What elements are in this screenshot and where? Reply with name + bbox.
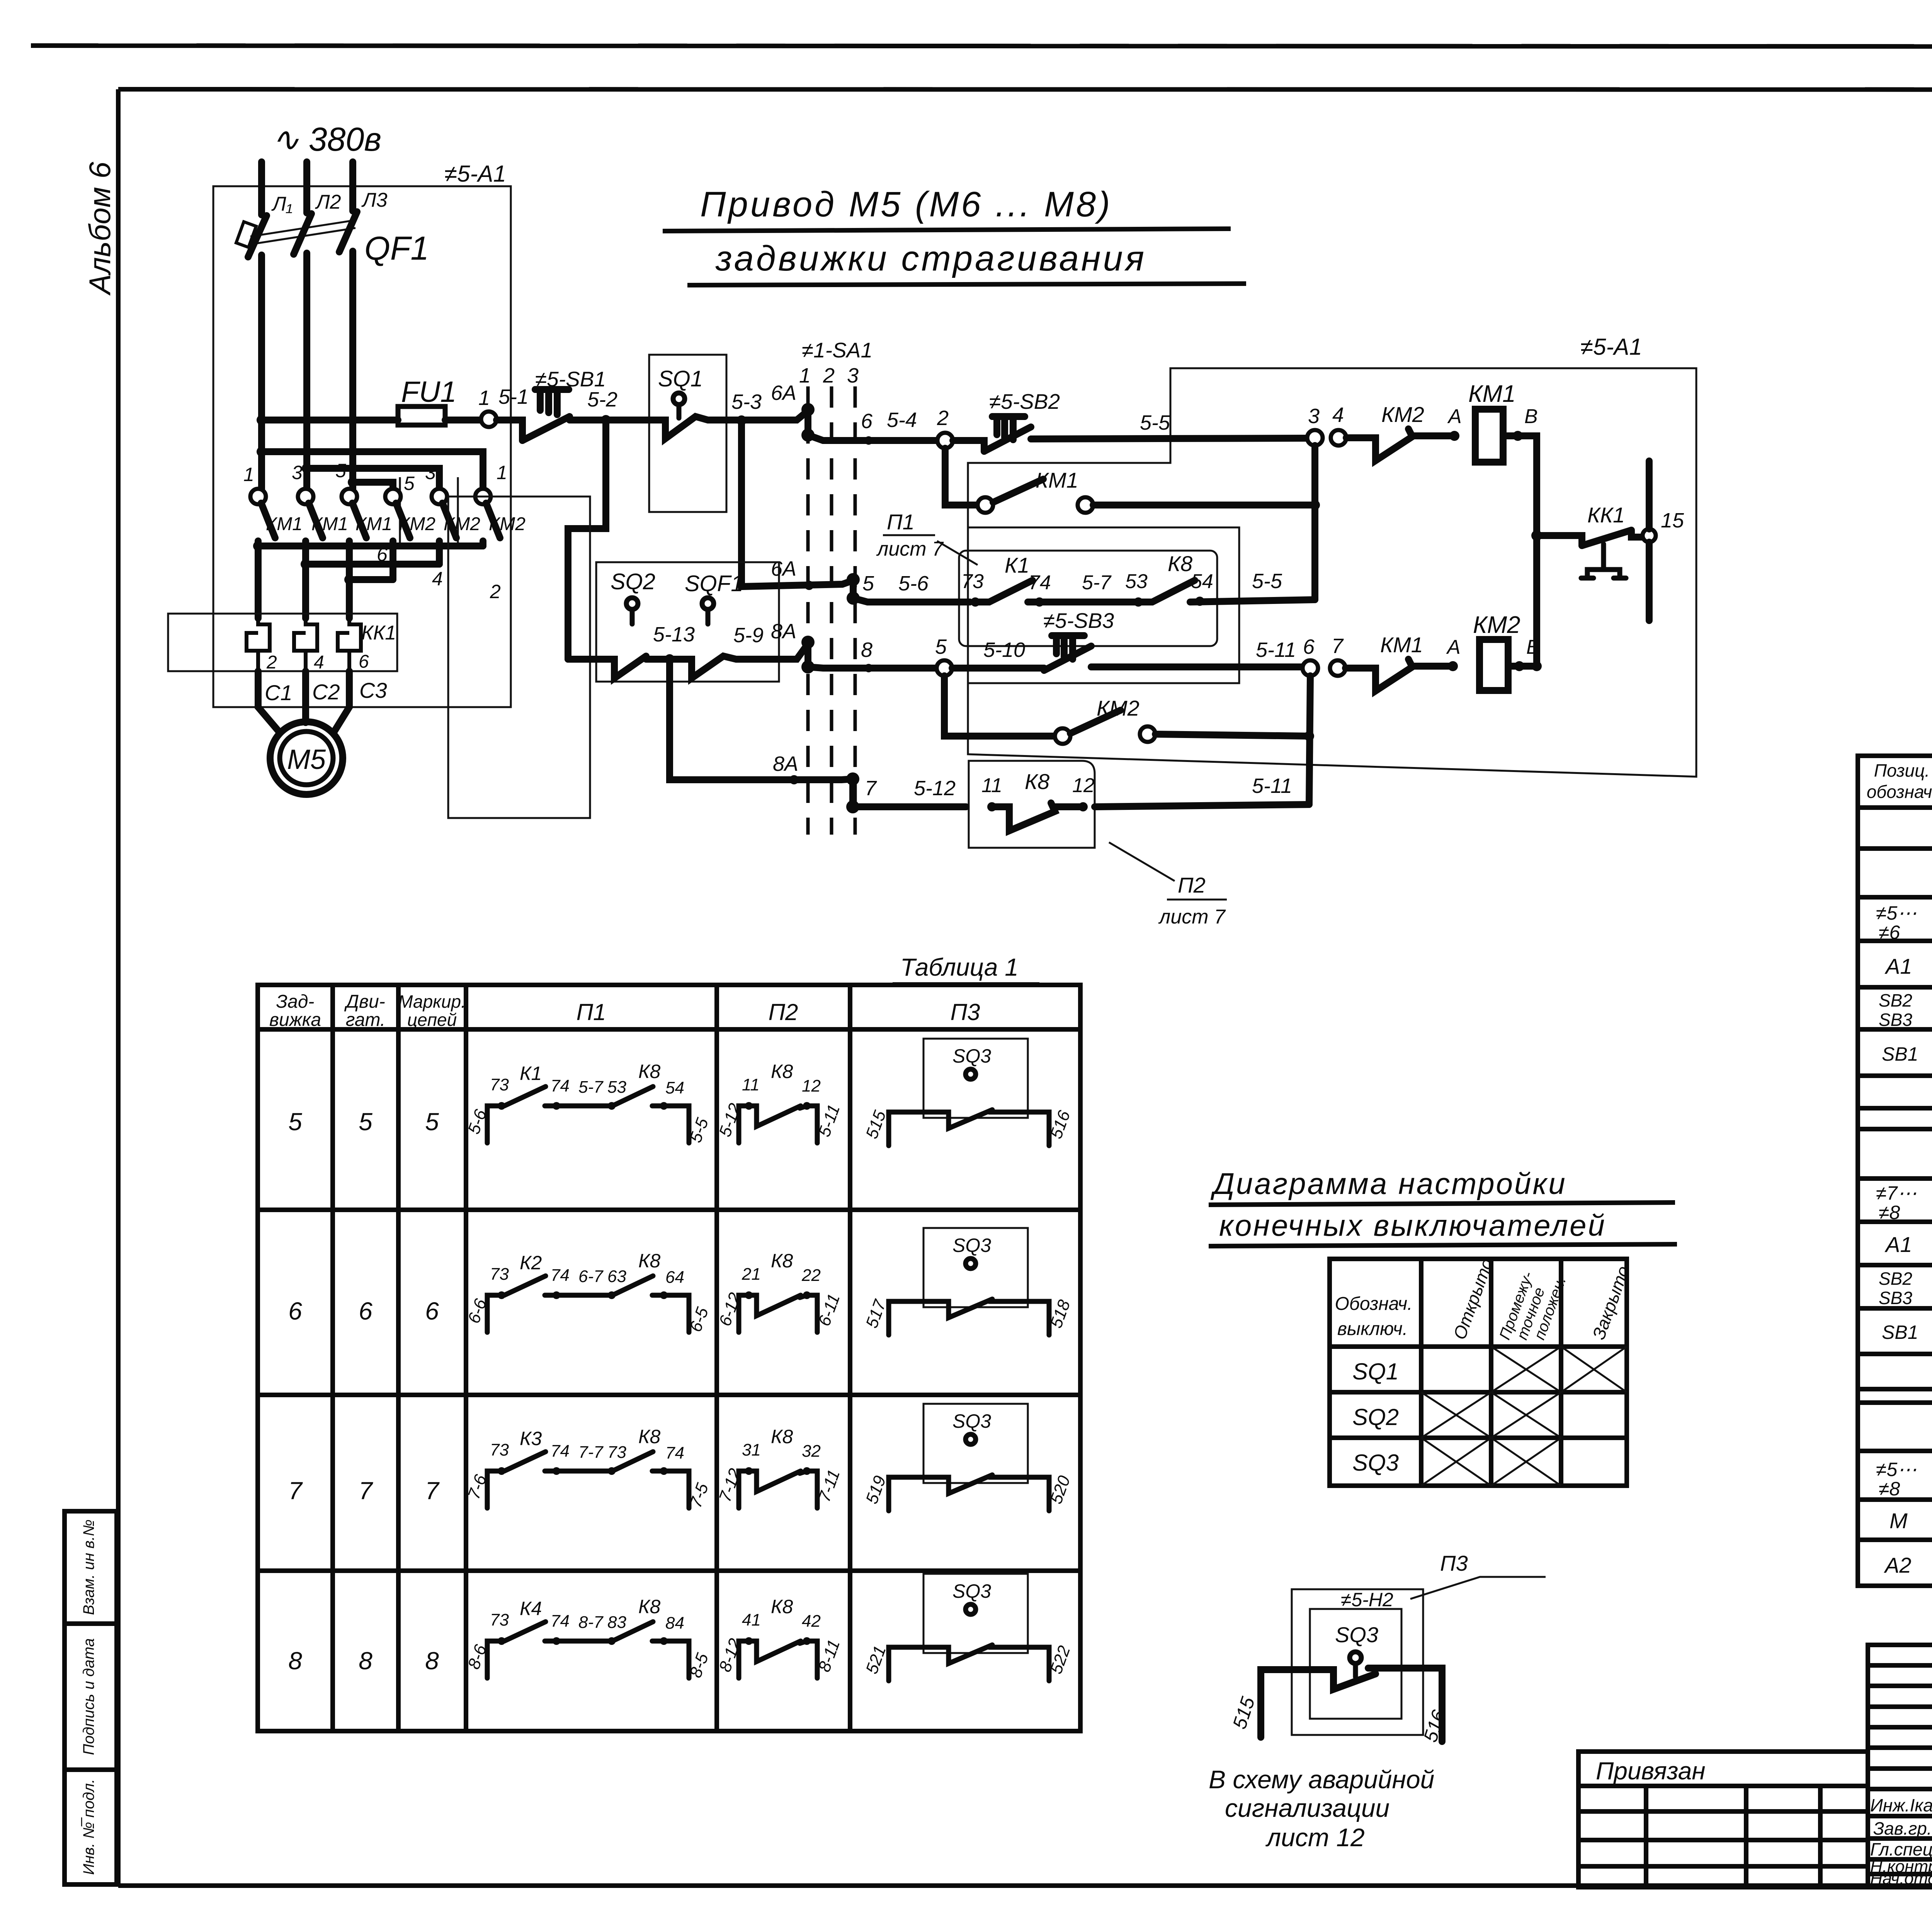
svg-text:6-7: 6-7	[578, 1267, 604, 1286]
svg-text:Подпись и дата: Подпись и дата	[80, 1638, 97, 1755]
KM1 blade a	[261, 503, 275, 538]
svg-text:5: 5	[935, 635, 947, 658]
reversing link row c	[349, 576, 393, 583]
phase line L2	[303, 162, 310, 213]
relay contact K1 blade	[975, 580, 1032, 602]
svg-text:8: 8	[359, 1647, 372, 1675]
svg-text:5-11: 5-11	[1256, 638, 1296, 662]
KM1 blade c	[352, 503, 366, 538]
row8 P3 box	[923, 1574, 1028, 1653]
row1 wire from connector	[808, 435, 937, 440]
svg-text:3: 3	[292, 462, 303, 483]
seal KM2 blade	[1070, 710, 1121, 733]
signature block box	[1868, 1645, 1932, 1887]
svg-text:П3: П3	[951, 999, 980, 1025]
node dot on 8A wire	[789, 775, 799, 784]
row6 P1 contact chain	[487, 1276, 689, 1332]
KK1 heater a	[247, 618, 270, 671]
seal KM1 terminal right	[1078, 497, 1093, 513]
P1 row wire from connector	[853, 598, 970, 602]
svg-text:С1: С1	[265, 680, 293, 705]
svg-text:Взам. ин в.№: Взам. ин в.№	[80, 1519, 97, 1615]
motor lead C2	[302, 671, 309, 723]
svg-text:SQ1: SQ1	[1352, 1359, 1399, 1384]
svg-text:Л₁: Л₁	[271, 193, 293, 215]
contact terminal 1b	[475, 489, 491, 504]
node 15 vertical line	[1646, 461, 1653, 621]
svg-text:74: 74	[551, 1442, 570, 1461]
svg-text:7: 7	[1332, 634, 1344, 658]
DIAGRAM TABLE	[1209, 1167, 1677, 1486]
svg-text:П1: П1	[887, 510, 915, 534]
SQ2 cross otkryto	[1421, 1392, 1491, 1438]
svg-text:SВ1: SВ1	[1882, 1043, 1918, 1065]
svg-text:6: 6	[425, 1297, 439, 1325]
row7 P3 actuator	[966, 1434, 976, 1444]
row8 P1 contact chain	[487, 1622, 689, 1678]
svg-text:5: 5	[425, 1108, 439, 1136]
table1 row lines	[258, 1029, 1080, 1571]
SA1 dashed line 2	[830, 386, 833, 835]
svg-text:54: 54	[1191, 570, 1213, 593]
LEFT MARGIN	[65, 162, 117, 1884]
row6 P2 dots	[745, 1291, 753, 1299]
row5 P3 contact	[889, 1110, 1049, 1146]
svg-text:SВ1: SВ1	[1882, 1321, 1918, 1343]
svg-text:2: 2	[266, 652, 277, 673]
row6 P3 actuator	[966, 1259, 976, 1269]
node 15 terminal circle	[1643, 529, 1656, 542]
phase line L1	[258, 162, 265, 215]
svg-text:≠6: ≠6	[1879, 922, 1900, 943]
svg-text:6: 6	[359, 1297, 372, 1325]
row6 P3 box	[923, 1228, 1028, 1307]
SQ2 actuator stem	[630, 609, 635, 624]
connector 6A dot upper	[801, 403, 815, 416]
connector 6A dot lower	[801, 429, 815, 442]
motor lead C3	[333, 671, 349, 733]
svg-text:4: 4	[432, 568, 443, 590]
row7 P2 contact	[739, 1471, 817, 1508]
svg-text:Таблица 1: Таблица 1	[900, 953, 1019, 981]
KM1 blade b	[309, 503, 323, 538]
svg-text:4: 4	[314, 652, 324, 673]
diagram table row lines	[1330, 1347, 1627, 1438]
row8 P3 actuator	[966, 1604, 976, 1614]
svg-text:1: 1	[478, 386, 490, 410]
table1 caption underline	[893, 982, 1039, 987]
svg-text:SQ2: SQ2	[611, 569, 655, 594]
button SB1 head	[535, 389, 569, 415]
contactor coil KM1	[1475, 409, 1503, 462]
svg-text:П2: П2	[769, 999, 798, 1025]
node dot link2	[302, 463, 312, 473]
svg-text:SQ3: SQ3	[952, 1410, 991, 1432]
output wire phase c	[346, 541, 353, 618]
svg-text:1: 1	[497, 462, 507, 483]
node dot on SA1 line 1	[804, 581, 814, 590]
svg-text:КМ2: КМ2	[399, 514, 435, 534]
svg-text:SВ3: SВ3	[1879, 1010, 1912, 1030]
thermal contact KK1 wire	[1537, 536, 1582, 546]
svg-text:К3: К3	[520, 1428, 542, 1449]
svg-text:К8: К8	[771, 1596, 793, 1617]
svg-text:SQ3: SQ3	[952, 1580, 991, 1602]
device box around SQ2 SQF1	[596, 562, 779, 682]
row5 P2 contact	[739, 1106, 817, 1143]
svg-text:5: 5	[335, 460, 346, 481]
svg-text:31: 31	[742, 1440, 761, 1459]
button SB3 blade	[1044, 646, 1091, 670]
svg-text:К4: К4	[520, 1598, 542, 1619]
svg-text:3: 3	[847, 364, 859, 387]
svg-text:лист 7: лист 7	[876, 538, 944, 560]
svg-text:лист 12: лист 12	[1265, 1823, 1365, 1852]
P3 leader line	[1410, 1577, 1546, 1599]
svg-text:А: А	[1447, 405, 1462, 428]
svg-text:≠5-SB2: ≠5-SB2	[989, 389, 1060, 413]
junction dot seal row2	[1304, 731, 1314, 741]
svg-text:7: 7	[288, 1477, 303, 1505]
left stamp box	[65, 1511, 117, 1884]
signature named rows	[1868, 1816, 1932, 1874]
svg-text:КМ1: КМ1	[1468, 381, 1516, 407]
vertical drop from 5-2 node	[568, 420, 606, 659]
diagram title underline 2	[1209, 1244, 1677, 1246]
signature thin rows	[1868, 1665, 1932, 1789]
relay contact K8 blade	[1138, 580, 1195, 602]
svg-text:5-12: 5-12	[914, 777, 956, 800]
svg-text:15: 15	[1661, 509, 1684, 532]
svg-text:≠5-А1: ≠5-А1	[1580, 334, 1642, 360]
svg-text:≠8: ≠8	[1879, 1202, 1900, 1223]
contact terminal 1	[250, 489, 266, 504]
POWER CIRCUIT	[168, 121, 526, 794]
svg-text:SQ2: SQ2	[1352, 1404, 1399, 1430]
diagram table outer	[1330, 1259, 1627, 1486]
button SB2 blade	[984, 427, 1031, 451]
row5 P1 dots	[498, 1102, 505, 1110]
svg-text:73: 73	[490, 1265, 509, 1284]
P2 leader underline	[1167, 899, 1227, 901]
svg-text:П1: П1	[577, 999, 606, 1025]
svg-text:Маркир.: Маркир.	[398, 992, 466, 1012]
svg-text:5-1: 5-1	[498, 385, 529, 408]
connector pair 6A	[804, 410, 811, 435]
row1 wire SB2 to circle3	[1031, 438, 1307, 439]
svg-text:5: 5	[404, 473, 415, 494]
terminal circle 4	[1331, 430, 1346, 446]
svg-text:А2: А2	[1884, 1553, 1912, 1577]
PARTS TABLE	[1858, 756, 1932, 1586]
svg-text:74: 74	[551, 1266, 570, 1285]
P1 outer thin box	[968, 527, 1239, 683]
junction dot row2 tail	[1532, 661, 1542, 671]
SQ1 cross zakryto	[1561, 1347, 1627, 1392]
svg-text:≠5-А1: ≠5-А1	[444, 161, 506, 187]
svg-text:задвижки страгивания: задвижки страгивания	[715, 239, 1146, 278]
svg-text:4: 4	[1332, 403, 1344, 427]
node dot link row a	[253, 541, 263, 551]
seal KM2 terminal right	[1140, 726, 1155, 742]
control feed bus wire	[262, 417, 398, 423]
svg-text:53: 53	[1125, 570, 1148, 593]
svg-text:Обознач.: Обознач.	[1335, 1294, 1413, 1314]
svg-text:3: 3	[1308, 405, 1320, 428]
svg-text:84: 84	[665, 1614, 684, 1633]
svg-text:53: 53	[607, 1078, 626, 1097]
inner frame left line	[116, 89, 121, 1886]
svg-text:5-5: 5-5	[1252, 570, 1282, 593]
relay contact K8b left dot	[987, 802, 997, 811]
SQ1 contact	[649, 417, 726, 439]
phase 3 down wire	[349, 251, 356, 489]
phase 2 down wire	[303, 253, 310, 489]
svg-text:5-11: 5-11	[1252, 774, 1292, 798]
svg-text:8: 8	[425, 1647, 439, 1675]
block A1 power boundary box	[213, 186, 511, 707]
contact terminal 3	[298, 489, 313, 504]
KM2 output a down	[389, 541, 396, 580]
diagram table column lines	[1421, 1259, 1561, 1486]
phase line L3	[349, 162, 356, 211]
svg-text:7: 7	[425, 1477, 440, 1505]
svg-text:7: 7	[359, 1477, 373, 1505]
svg-text:КК1: КК1	[1587, 503, 1625, 527]
svg-text:32: 32	[802, 1442, 821, 1461]
seal KM1 terminal left	[978, 497, 993, 513]
svg-text:≠5-SB3: ≠5-SB3	[1043, 609, 1114, 633]
row5 P2 dots	[745, 1102, 753, 1110]
svg-text:А1: А1	[1884, 954, 1912, 978]
svg-text:74: 74	[665, 1444, 684, 1463]
connector 8A dot lower	[801, 660, 815, 673]
svg-text:цепей: цепей	[407, 1010, 457, 1030]
privyazan strip box	[1578, 1752, 1868, 1887]
svg-text:гат.: гат.	[346, 1010, 386, 1030]
P2 row wire from connector	[853, 803, 966, 810]
svg-text:С2: С2	[312, 680, 340, 704]
pin 12 dot	[1078, 802, 1088, 811]
svg-text:6: 6	[1303, 635, 1315, 658]
svg-text:5-13: 5-13	[653, 623, 695, 646]
svg-text:21: 21	[742, 1265, 761, 1284]
svg-text:QF1: QF1	[364, 230, 429, 267]
cross link 2	[307, 468, 439, 489]
phase 1 down wire	[258, 255, 265, 489]
svg-text:5: 5	[862, 572, 874, 595]
svg-text:6: 6	[359, 651, 369, 672]
diagram title underline 1	[1209, 1202, 1675, 1205]
svg-text:П3: П3	[1440, 1551, 1468, 1575]
SQ1 actuator circle	[673, 393, 685, 405]
row8 P2 contact	[739, 1641, 817, 1678]
node dot 5-3 branch	[736, 415, 747, 425]
relay contact K8 right wire	[1190, 600, 1315, 602]
outer top border line	[31, 46, 1932, 47]
svg-text:5: 5	[359, 1108, 372, 1136]
node dot 8A branch	[665, 654, 675, 664]
TABLE 1	[258, 953, 1080, 1731]
svg-text:≠5-Н2: ≠5-Н2	[1341, 1589, 1393, 1611]
svg-text:2: 2	[823, 364, 835, 387]
relay contact K8b step	[992, 803, 1083, 831]
svg-text:5-10: 5-10	[983, 638, 1025, 662]
branch wire to 8A lower	[670, 659, 853, 780]
connector P1 dot lower	[847, 592, 860, 605]
row8 P1 dots	[498, 1637, 505, 1645]
seal KM2 terminal left	[1055, 728, 1070, 744]
node dot phase1 bus	[257, 415, 267, 425]
svg-text:8А: 8А	[773, 752, 798, 776]
CONTROL LEFT	[262, 338, 872, 835]
relay contact K1 right wire	[1028, 599, 1136, 605]
svg-text:1: 1	[243, 464, 254, 485]
svg-text:74: 74	[1029, 571, 1051, 594]
svg-text:≠5⋯: ≠5⋯	[1876, 902, 1917, 924]
P1 marker box	[959, 551, 1217, 646]
KM2 blade c	[486, 503, 500, 538]
KK1 heater c	[338, 618, 361, 671]
output wire phase b	[302, 541, 309, 618]
vertical circle6 to P2 return	[1309, 676, 1310, 804]
KM2 output c down	[480, 541, 486, 546]
row6 P3 contact	[889, 1299, 1049, 1335]
svg-text:6: 6	[861, 410, 873, 433]
svg-text:63: 63	[607, 1267, 626, 1286]
svg-text:М: М	[1889, 1509, 1908, 1533]
svg-text:К1: К1	[1005, 553, 1029, 577]
svg-text:конечных выключателей: конечных выключателей	[1219, 1208, 1606, 1242]
row5 P1 contact chain	[487, 1087, 689, 1143]
motor M5 inner circle	[280, 731, 333, 785]
motor lead C1	[258, 671, 280, 733]
svg-text:П2: П2	[1178, 873, 1206, 897]
svg-text:Позиц.: Позиц.	[1874, 760, 1930, 781]
cross link 1	[262, 452, 483, 489]
row6 P2 contact	[739, 1295, 817, 1332]
SQ2 actuator circle	[626, 598, 638, 609]
contact terminal 3b	[432, 489, 447, 504]
svg-text:5: 5	[288, 1108, 302, 1136]
svg-text:А: А	[1446, 636, 1461, 658]
svg-text:К8: К8	[638, 1426, 660, 1447]
node dot link row c	[344, 575, 354, 585]
connector P2 dot upper	[846, 772, 859, 786]
TITLES AND NOTES	[663, 168, 1932, 642]
svg-text:11: 11	[742, 1075, 760, 1094]
thermal relay KK1 box	[168, 614, 397, 671]
svg-text:С3: С3	[359, 678, 387, 702]
svg-text:Л2: Л2	[315, 191, 341, 213]
node A row2	[1448, 661, 1458, 671]
SA1 dashed line 1	[806, 386, 810, 835]
svg-text:5-6: 5-6	[898, 572, 929, 595]
row5 P3 actuator	[966, 1069, 976, 1079]
svg-text:SQ3: SQ3	[952, 1045, 991, 1067]
row5 P3 box	[923, 1039, 1028, 1118]
svg-text:К8: К8	[638, 1061, 660, 1082]
svg-text:≠8: ≠8	[1879, 1478, 1900, 1500]
breaker QF1 blade 1	[248, 216, 267, 257]
table1 outer box	[258, 985, 1080, 1731]
svg-text:Зав.гр.: Зав.гр.	[1873, 1818, 1932, 1838]
svg-text:22: 22	[801, 1266, 821, 1285]
svg-text:К8: К8	[771, 1061, 793, 1082]
row8 P3 contact	[889, 1645, 1049, 1681]
svg-text:обознач.: обознач.	[1867, 782, 1932, 802]
connector 8A dot upper	[801, 636, 815, 649]
svg-text:6А: 6А	[771, 557, 796, 580]
svg-text:≠1-SA1: ≠1-SA1	[802, 338, 872, 362]
svg-text:7-7: 7-7	[578, 1443, 604, 1462]
SQ2 cross promezh	[1491, 1392, 1561, 1438]
button SB3 head	[1052, 636, 1084, 659]
svg-text:6А: 6А	[771, 381, 796, 405]
row1 tail wire	[1503, 436, 1537, 667]
wire fuse to terminal	[445, 417, 481, 423]
P3 actuator stem	[1353, 1663, 1358, 1677]
row2 wire SB3 to circle6	[1091, 663, 1303, 670]
svg-text:SВ2: SВ2	[1879, 1269, 1912, 1289]
terminal circle 6	[1303, 660, 1318, 676]
svg-text:∿ 380в: ∿ 380в	[272, 121, 381, 158]
svg-text:В: В	[1524, 405, 1538, 428]
KM2 output b down	[436, 541, 443, 564]
SQF1 contact	[646, 644, 808, 678]
svg-text:8А: 8А	[771, 620, 796, 643]
output wire phase a	[255, 541, 262, 618]
inner frame bottom line	[118, 1883, 1932, 1888]
inner frame top line	[118, 89, 1932, 90]
contactor coil KM2	[1480, 639, 1508, 690]
breaker QF1 blade 3	[339, 212, 357, 252]
branch wire to 6A lower	[742, 420, 853, 587]
svg-text:Диаграмма настройки: Диаграмма настройки	[1210, 1167, 1567, 1201]
svg-text:8: 8	[288, 1647, 302, 1675]
P3 actuator circle	[1350, 1652, 1361, 1663]
svg-text:SQ3: SQ3	[1352, 1450, 1399, 1476]
connector pair P1	[850, 580, 857, 598]
breaker QF1 tie bar	[250, 220, 355, 244]
limit switch SQ1 box	[649, 355, 726, 512]
row7 P2 dots	[745, 1467, 753, 1475]
svg-text:К1: К1	[520, 1063, 542, 1084]
svg-text:12: 12	[1072, 774, 1095, 797]
svg-text:64: 64	[665, 1268, 684, 1287]
svg-text:А1: А1	[1884, 1232, 1912, 1257]
svg-text:SQF1: SQF1	[685, 571, 743, 596]
node dot link row b	[301, 559, 311, 569]
parts table row lines	[1858, 808, 1932, 1540]
svg-text:Привязан: Привязан	[1596, 1757, 1706, 1785]
cross link 3	[353, 482, 393, 489]
KM1 NC contact row2	[1345, 659, 1450, 691]
contact terminal 5b	[385, 489, 401, 504]
svg-text:К8: К8	[771, 1426, 793, 1447]
SA1 dashed line 3	[854, 386, 857, 835]
P2 leader line	[1109, 842, 1175, 881]
terminal circle 1	[481, 412, 497, 427]
wire SQ1 to connector	[726, 411, 808, 420]
CONTROL RIGHT	[808, 334, 1696, 928]
svg-text:73: 73	[961, 570, 984, 593]
svg-text:12: 12	[802, 1077, 821, 1095]
SQ2 contact	[568, 656, 646, 678]
svg-text:В: В	[1526, 636, 1540, 658]
P1 leader line	[937, 541, 978, 565]
svg-text:5-3: 5-3	[731, 390, 762, 413]
